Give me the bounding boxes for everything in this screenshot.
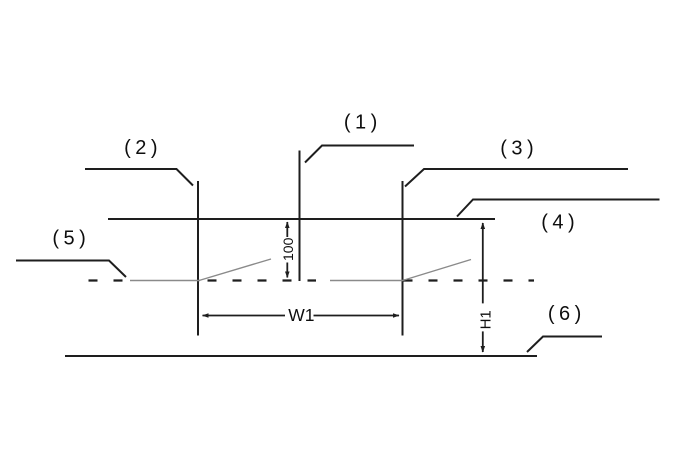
wire dashed center line right segment bbox=[404, 279, 535, 281]
wire leader line 4 bbox=[457, 200, 660, 217]
wire dashed center line left segment bbox=[89, 279, 131, 281]
svg-text:W1: W1 bbox=[288, 305, 314, 325]
node dimension H1 arrow up bbox=[481, 222, 486, 229]
node dimension 100 arrow up bbox=[285, 222, 290, 229]
wire dimension 100 line bbox=[286, 222, 288, 278]
svg-text:(2): (2) bbox=[124, 137, 162, 159]
svg-text:(4): (4) bbox=[541, 212, 579, 234]
wire right vertical line bbox=[402, 181, 404, 336]
svg-text:H1: H1 bbox=[477, 310, 494, 329]
wire dimension W1 line bbox=[203, 315, 400, 317]
node dimension H1 arrow down bbox=[481, 346, 486, 353]
wire center vertical line bbox=[299, 151, 301, 282]
svg-text:(5): (5) bbox=[52, 227, 90, 249]
wire leader line 1 bbox=[305, 146, 414, 163]
wire gray left diagonal bbox=[199, 259, 271, 281]
svg-text:(6): (6) bbox=[548, 303, 586, 325]
node dimension W1 arrow left bbox=[202, 313, 209, 318]
wire dashed center line middle segment bbox=[208, 279, 317, 281]
wire leader line 6 bbox=[527, 337, 602, 353]
svg-text:100: 100 bbox=[280, 237, 296, 261]
wire bottom horizontal line bbox=[65, 355, 537, 357]
wire leader line 5 bbox=[16, 261, 126, 278]
svg-text:(3): (3) bbox=[500, 137, 538, 159]
svg-text:(1): (1) bbox=[344, 111, 382, 133]
wire leader line 2 bbox=[85, 169, 193, 186]
wire dimension H1 line bbox=[482, 223, 484, 352]
wire gray right diagonal bbox=[403, 260, 472, 281]
wire gray left horizontal segment bbox=[130, 280, 200, 282]
node dimension 100 arrow down bbox=[285, 272, 290, 279]
node dimension W1 arrow right bbox=[393, 313, 400, 318]
wire left vertical line bbox=[197, 181, 199, 336]
wire gray right horizontal segment bbox=[330, 280, 403, 282]
wire main horizontal surface line bbox=[108, 218, 495, 220]
wire leader line 3 bbox=[405, 169, 628, 187]
